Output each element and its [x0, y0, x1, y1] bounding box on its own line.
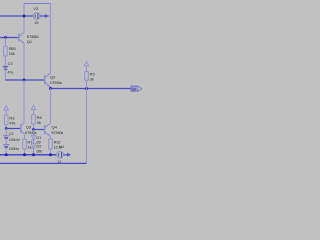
- svg-text:100Hz: 100Hz: [9, 147, 19, 151]
- wire Q1 base horizontal y37.5: [0, 37, 18, 39]
- resistor R5: [85, 72, 89, 81]
- wire V1 to V2: [5, 139, 7, 145]
- transistor Q1: [19, 33, 25, 44]
- label Q2 model KT940A: [50, 81, 63, 85]
- label R5: [90, 71, 96, 76]
- label R5 value: [90, 76, 94, 81]
- resistor R3: [4, 115, 8, 125]
- wire base bus y80: [5, 79, 44, 81]
- svg-text:15: 15: [34, 20, 39, 25]
- wire bottom rail 1 left: [0, 154, 57, 156]
- label R10 value: [54, 144, 63, 149]
- power arrow supply R5: [84, 61, 88, 71]
- label R10: [54, 139, 62, 144]
- label Q4 model KT940A: [52, 131, 65, 135]
- label Q4: [52, 125, 58, 130]
- power arrow supply R3: [4, 106, 8, 115]
- svg-text:C2: C2: [9, 132, 14, 136]
- wire bottom rail 2: [0, 162, 87, 164]
- wire V2 to rail: [5, 148, 7, 155]
- wire load vertical x86.5: [86, 89, 88, 164]
- svg-text:Q3: Q3: [26, 124, 32, 129]
- svg-text:1k: 1k: [27, 144, 31, 149]
- label Q3: [26, 124, 32, 129]
- wire collector rail x50.5: [50, 4, 52, 74]
- label R6: [37, 115, 43, 120]
- svg-text:3k: 3k: [37, 120, 41, 125]
- wire RB1 to C3: [4, 56, 6, 66]
- transistor Q2: [45, 73, 51, 87]
- svg-text:47u: 47u: [7, 70, 13, 74]
- label R7 value: [27, 144, 31, 149]
- node junction (5.4,37.5): [4, 36, 7, 39]
- wire node to D1: [33, 130, 35, 136]
- label V3 value: [34, 20, 39, 25]
- label Q3 model KT940A: [25, 131, 38, 135]
- resistor R7: [23, 139, 27, 149]
- wire R7 to rail: [24, 149, 26, 155]
- wire Q3 base y128.5: [6, 128, 20, 130]
- svg-text:D2: D2: [36, 145, 41, 149]
- wire output bus y88.5: [51, 88, 132, 90]
- battery V2: [3, 145, 9, 147]
- wire x24 Q1 emitter down: [23, 43, 25, 80]
- battery V1: [3, 136, 9, 138]
- svg-text:Q4: Q4: [52, 125, 58, 130]
- svg-text:d9b: d9b: [36, 149, 42, 153]
- svg-text:Q1: Q1: [27, 39, 33, 44]
- port Out flag: [131, 86, 142, 92]
- label Q2: [50, 75, 56, 80]
- label D2: [36, 145, 41, 149]
- wire V3 to rail with arrow: [40, 14, 50, 18]
- label R6 value: [37, 120, 41, 125]
- wire left vertical x24 upper: [23, 4, 25, 33]
- wire D2 to rail: [33, 148, 35, 155]
- wire Q4 base y129.5: [34, 129, 45, 131]
- diode D1: [31, 135, 35, 140]
- label C3: [8, 62, 13, 66]
- svg-text:C3: C3: [8, 62, 13, 66]
- wire x24 lower to Q3 collector: [23, 80, 25, 121]
- label D1 model: [36, 141, 40, 145]
- wire Q4 emitter to R10: [50, 137, 52, 139]
- label V4: [59, 144, 65, 149]
- wire R10 to rail: [50, 149, 52, 155]
- diode C3 symbol: [3, 66, 8, 69]
- label R3 value: [9, 120, 15, 125]
- label R7: [27, 139, 33, 144]
- label RB1: [9, 46, 17, 51]
- wire R3 to base node: [5, 125, 7, 129]
- transistor Q4: [45, 124, 51, 137]
- label C2: [9, 132, 14, 136]
- diode D2: [31, 144, 35, 149]
- svg-text:Q2: Q2: [50, 75, 56, 80]
- node junction (50.5,154.8): [49, 153, 52, 156]
- svg-text:KT361b: KT361b: [27, 35, 39, 39]
- battery V3: [33, 13, 40, 20]
- label V3: [33, 6, 39, 11]
- svg-text:out: out: [132, 88, 136, 92]
- label RB1 value: [9, 51, 15, 56]
- wire source chain top: [5, 129, 7, 136]
- node junction (86.5,88.5): [85, 87, 88, 90]
- svg-text:V3: V3: [33, 6, 39, 11]
- resistor RB1: [4, 46, 8, 56]
- label Q1 model KT361: [27, 35, 39, 39]
- node junction (24,80): [23, 79, 26, 82]
- svg-text:KT940a: KT940a: [25, 131, 38, 135]
- node junction (6.2,128.5): [5, 127, 8, 130]
- node junction (33.5,129.5): [32, 128, 35, 131]
- label V1 value: [9, 138, 21, 142]
- node junction (24,16): [23, 15, 26, 18]
- wire Q3 emitter to R7: [24, 134, 26, 139]
- label R3: [9, 115, 15, 120]
- label V2 value: [9, 147, 19, 151]
- label C3 value: [7, 70, 13, 74]
- svg-text:KT940a: KT940a: [52, 131, 65, 135]
- wire D1 to D2: [33, 140, 35, 144]
- resistor R10: [49, 139, 53, 149]
- transistor Q3: [21, 122, 25, 135]
- wire Q2 emitter rail to Q4 collector: [50, 89, 52, 124]
- svg-text:KT940a: KT940a: [50, 81, 63, 85]
- label Q1: [27, 39, 33, 44]
- svg-text:3k: 3k: [90, 76, 94, 81]
- svg-text:100mV: 100mV: [9, 138, 21, 142]
- node junction (24.5,154.8): [23, 153, 26, 156]
- svg-text:47k: 47k: [9, 120, 15, 125]
- label V4 value: [57, 159, 62, 164]
- svg-text:10k: 10k: [9, 51, 15, 56]
- wire R5 to node: [86, 80, 88, 88]
- resistor R6: [32, 115, 36, 125]
- wire top rail: [24, 3, 51, 5]
- wire R6 to node: [33, 124, 35, 129]
- node junction (50.5,88.5): [49, 87, 52, 90]
- label D2 model: [36, 149, 42, 153]
- wire input horizontal y16: [0, 15, 33, 17]
- svg-text:D1: D1: [36, 136, 41, 140]
- wire C3 down corner to y80: [5, 70, 24, 80]
- node junction (6.2,154.8): [5, 153, 8, 156]
- wire V4 arrow: [63, 153, 71, 157]
- power arrow supply R6: [31, 105, 35, 114]
- svg-text:V4: V4: [59, 144, 65, 149]
- battery V4: [57, 151, 64, 158]
- wire RB1 top: [4, 38, 6, 47]
- node junction (33.5,154.8): [32, 153, 35, 156]
- label D1: [36, 136, 41, 140]
